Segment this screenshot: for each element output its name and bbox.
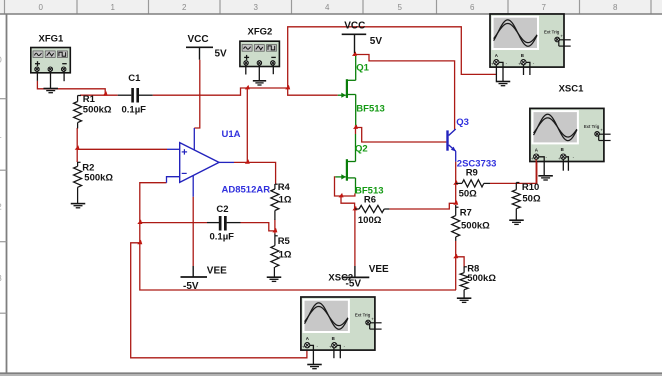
resistor R5 [271,234,279,277]
svg-text:B: B [332,336,335,341]
svg-text:4: 4 [325,3,330,12]
junction R4/R5 node [272,228,277,233]
oscilloscope top-right [490,14,571,67]
wire Q3 emitter to R9 node [455,162,457,204]
ground R2 [71,204,86,208]
value VEE2 -5V [346,279,362,290]
value C2 0.1uF [210,232,235,243]
value VCC1 5V [215,48,228,59]
label XFG2 [248,26,273,37]
junction Q3 emitter/R9 [453,180,458,185]
ground R8 [457,298,472,302]
svg-text:BF513: BF513 [356,103,385,114]
wire C2 right to R4/R5 node [241,223,275,231]
oscilloscope XSC2 [301,297,382,350]
value C1 0.1uF [122,104,147,115]
label AD8512AR [222,184,271,195]
svg-text:R1: R1 [83,94,96,105]
label VCC1 [188,34,209,45]
svg-text:+: + [560,33,563,38]
wire node to R8 top [456,257,464,267]
junction VCC2/Q1 drain [352,51,357,56]
junction Q1 source/Q2 drain [353,124,358,128]
value R1 500kOhm [83,105,112,116]
XFG2 minus stub [272,65,274,75]
junction R7/R8 node [453,254,458,259]
XFG1 ground pin [50,72,52,89]
scope XSC1 A minus lead [539,157,544,175]
XFG1 minus stub [63,72,65,82]
resistor R9 [462,180,484,187]
function generator XFG2 [240,41,280,66]
label Q1 BF513 [356,103,385,114]
power VCC1 [186,47,213,59]
XFG1 plus pin [36,72,38,81]
wire VCC rail to scope XSC4 A [288,27,497,88]
resistor R8 [460,267,468,298]
wire opamp output to R4 [234,162,276,184]
svg-text:VEE: VEE [207,266,227,277]
scope top A pin [495,65,497,81]
ground R5 [267,277,282,281]
svg-text:+: + [329,345,332,350]
svg-text:50Ω: 50Ω [459,189,478,200]
svg-text:B: B [521,53,524,58]
junction opamp output [245,159,250,164]
label U1A [222,129,241,140]
junction scope tap [137,240,142,245]
svg-text:Ext Trig: Ext Trig [584,124,600,129]
wire R2 top [76,148,78,162]
junction R6/R7 node [453,200,458,205]
transistor Q2 [335,134,355,193]
svg-text:-5V: -5V [183,281,199,292]
wire R6 node to VEE2 [354,209,356,266]
wire VCC1 to opamp V+ pin [194,60,200,128]
value R5 1Ohm [279,249,292,260]
value R8 500kOhm [467,273,496,284]
svg-text:R9: R9 [466,168,478,179]
svg-text:100Ω: 100Ω [358,215,382,226]
svg-text:XSC1: XSC1 [559,84,585,95]
value R4 1Ohm [279,195,292,206]
resistor R2 [74,162,82,203]
function generator XFG1 [31,48,71,73]
svg-text:VCC: VCC [344,21,365,32]
svg-text:R7: R7 [460,208,472,219]
bottom border [0,373,662,376]
label R8 [467,263,479,274]
value R10 50Ohm [522,194,541,205]
label C2 [216,204,228,215]
capacitor C1 [118,88,153,103]
XFG2 plus stub [245,65,247,75]
wire Q1/Q2 node to Q3 base [356,128,447,143]
svg-text:C2: C2 [216,204,228,215]
wire feedback tap to scope XSC2 A [131,243,307,358]
wire gate loop to R6 node [341,196,355,209]
wire node to opamp output riser [246,88,248,162]
svg-text:+: + [491,62,494,67]
svg-text:2: 2 [182,3,187,12]
svg-text:Ext Trig: Ext Trig [355,313,371,318]
label Q2 BF513 [355,185,384,196]
svg-text:R10: R10 [522,182,539,193]
scope XSC2 B pins [334,345,340,358]
value R6 100Ohm [358,215,382,226]
svg-text:VEE: VEE [369,264,389,275]
resistor R7 [452,205,460,241]
label R4 [278,182,291,193]
wire Q2 gate loop [335,177,355,196]
wire Q1 source to Q2 drain [355,125,357,134]
label R2 [82,163,94,174]
power VCC2 [342,34,367,53]
capacitor C2 [207,216,241,231]
label XFG1 [39,33,65,44]
wire R1 bottom [76,128,78,148]
wire R9 right to R10 and scope XSC1 A [490,158,537,183]
label Q2 [355,144,368,155]
svg-text:500kΩ: 500kΩ [84,173,113,184]
svg-text:1Ω: 1Ω [279,195,292,206]
svg-text:AD8512AR: AD8512AR [222,184,271,195]
junction R1/R2/opamp+ node [75,145,80,150]
wire C1 right to Q2-node riser [153,88,288,95]
svg-text:+: + [600,128,603,133]
wire R1/R2 node to opamp plus input [77,148,167,150]
wire R7 bottom to R8/feedback node [455,241,457,290]
svg-text:Q1: Q1 [356,63,369,74]
svg-text:500kΩ: 500kΩ [461,221,490,232]
label Q3 2SC3733 [457,158,497,169]
svg-text:1Ω: 1Ω [279,249,292,260]
svg-text:5V: 5V [215,48,228,59]
svg-text:1: 1 [111,3,116,12]
svg-text:+: + [531,156,534,161]
power VEE1 [181,266,208,277]
transistor Q3 [448,129,456,162]
resistor R6 [355,205,390,212]
wire XFG1 plus to R1/C1 node [37,81,117,95]
value R2 500kOhm [84,173,113,184]
ground scope top [496,82,511,86]
wire R4 bottom to node [274,220,276,234]
junction VCC riser node [285,85,290,90]
value R7 500kOhm [461,221,490,232]
label XSC1 [559,84,585,95]
scope XSC1 A red lead [535,160,537,184]
resistor R10 [512,183,520,220]
label R10 [522,182,539,193]
svg-text:XFG2: XFG2 [248,26,273,37]
junction R1/C1 node [103,91,108,96]
svg-text:7: 7 [542,3,547,12]
svg-text:Q2: Q2 [355,144,368,155]
junction Q2 gate-source [339,193,344,198]
wire feedback node to C2 [140,222,207,224]
label VCC2 [344,21,365,32]
svg-text:50Ω: 50Ω [522,194,541,205]
ground scope XSC1 [538,176,553,180]
label R5 [278,236,291,247]
label Q1 [356,63,369,74]
scope XSC1 B pins [563,157,568,171]
svg-text:+: + [558,156,561,161]
junction C2 tap [137,220,142,225]
svg-text:R6: R6 [364,194,376,205]
wire opamp V- pin to VEE [192,197,194,266]
svg-text:5: 5 [398,3,403,12]
svg-text:B: B [561,147,564,152]
svg-text:3: 3 [254,3,259,12]
transistor Q1 [338,56,356,125]
label R1 [83,94,96,105]
svg-text:0.1µF: 0.1µF [210,232,235,243]
wire R1 top to node [80,94,105,96]
label VEE1 [207,266,227,277]
value R9 50Ohm [459,189,478,200]
resistor R4 [271,184,279,220]
svg-text:U1A: U1A [222,129,241,140]
svg-text:5V: 5V [370,36,383,47]
label XSC2 [328,272,353,283]
label VEE2 [369,264,389,275]
svg-text:500kΩ: 500kΩ [467,273,496,284]
svg-text:R4: R4 [278,182,291,193]
svg-text:+: + [302,345,305,350]
label Q3 [456,117,469,128]
ground XFG2 [253,81,266,85]
top ruler [0,0,662,14]
svg-text:+: + [371,316,374,321]
svg-text:500kΩ: 500kΩ [83,105,112,116]
svg-text:8: 8 [613,3,618,12]
wire opamp minus to feedback node [140,183,456,290]
svg-text:R5: R5 [278,236,291,247]
svg-text:6: 6 [470,3,475,12]
svg-text:Ext Trig: Ext Trig [544,30,560,35]
wire VCC2 stem [354,53,356,56]
wire R6 right to R7 node [389,203,455,209]
label R7 [460,208,472,219]
scope XSC2 A minus lead [310,345,314,364]
svg-text:XSC2: XSC2 [328,272,353,283]
oscilloscope XSC1 [530,108,611,161]
svg-text:C1: C1 [128,73,141,84]
XFG2 ground pin [258,65,260,81]
resistor R1 [74,96,82,129]
label C1 [128,73,141,84]
value VEE1 -5V [183,281,199,292]
svg-text:+: + [518,62,521,67]
svg-text:0.1µF: 0.1µF [122,104,147,115]
ground scope XSC2 [307,365,322,369]
svg-text:VCC: VCC [188,34,209,45]
left ruler [0,14,7,373]
ground R10 [509,220,524,224]
op-amp U1A [167,128,235,197]
wire VCC2 node to Q3 collector [355,55,455,130]
junction XFG2 node [245,85,250,90]
scope top A minus lead [499,62,503,81]
svg-text:Q3: Q3 [456,117,469,128]
power VEE2 [342,266,369,277]
svg-text:0: 0 [39,3,44,12]
wire node to Q1 gate [288,88,338,95]
value VCC2 5V [370,36,383,47]
scope top B pins [524,62,530,75]
svg-text:XFG1: XFG1 [39,33,65,44]
R9 leads [456,182,490,184]
label R6 [364,194,376,205]
label R9 [466,168,478,179]
junction R6 left node [352,206,357,211]
ground XFG1 [43,89,58,93]
